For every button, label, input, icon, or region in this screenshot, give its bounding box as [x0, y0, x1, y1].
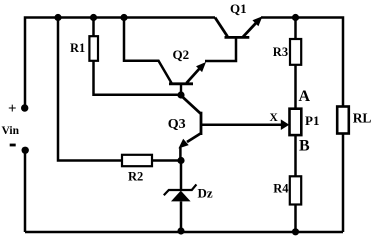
svg-text:Vin: Vin — [2, 125, 20, 137]
svg-text:Q1: Q1 — [230, 1, 247, 16]
wire right rail lower (RL to bottom) — [342, 134, 345, 233]
wire R2 to node E — [152, 159, 181, 162]
wire R1 top drop — [92, 18, 95, 37]
junction dot top rail at Q2 feed — [120, 14, 127, 21]
wire Dz bottom lead — [180, 202, 183, 233]
wire R3 top lead — [294, 18, 297, 40]
wire R1 bottom to Q2 base node — [94, 61, 182, 95]
wiper arrowhead into P1 — [281, 119, 290, 130]
svg-text:R1: R1 — [70, 41, 85, 55]
svg-text:+: + — [8, 101, 17, 117]
label minus sign — [10, 144, 16, 147]
junction dot top rail at R1 — [90, 14, 97, 21]
resistor RL — [337, 107, 349, 134]
svg-text:B: B — [299, 137, 310, 154]
potentiometer P1 — [290, 109, 302, 135]
wire R2 feed from top rail — [58, 18, 122, 161]
zener diode Dz — [164, 184, 197, 201]
wire Q2 collector feed — [124, 18, 172, 84]
resistor R3 — [290, 39, 301, 65]
wire left negative lead — [24, 150, 27, 232]
transistor Q1 — [215, 13, 265, 37]
wire P1 terminal B to R4 — [294, 135, 297, 177]
wire R3 to P1 terminal A — [294, 65, 297, 109]
svg-text:P1: P1 — [305, 113, 319, 128]
resistor R4 — [290, 176, 301, 204]
svg-text:R4: R4 — [273, 181, 289, 195]
transistor Q2 — [169, 59, 209, 95]
wire Q3 base to P1 wiper — [202, 123, 284, 126]
wire bottom rail — [25, 231, 343, 234]
wire Q3 emitter to node E — [179, 148, 182, 161]
svg-text:R2: R2 — [128, 169, 143, 183]
junction dot bottom rail at R4 — [292, 228, 299, 235]
junction dot bottom rail at Dz — [177, 227, 184, 234]
junction dot node E — [177, 157, 184, 164]
svg-text:Q2: Q2 — [173, 47, 190, 62]
svg-text:Dz: Dz — [198, 185, 213, 200]
junction dot top rail at R3 — [292, 14, 299, 21]
wire R4 bottom lead — [294, 205, 297, 233]
transistor Q3 — [176, 96, 201, 152]
svg-text:X: X — [270, 112, 279, 124]
junction dot top rail at R2 feed — [54, 14, 61, 21]
junction dot Q2 base node — [177, 91, 184, 98]
terminal dot minus — [22, 147, 29, 154]
svg-text:R3: R3 — [273, 45, 288, 59]
svg-text:Q3: Q3 — [168, 117, 186, 132]
svg-text:RL: RL — [353, 111, 371, 126]
resistor R2 — [122, 155, 152, 166]
wire Q1 base to Q2 emitter — [205, 39, 236, 62]
terminal dot plus — [21, 104, 28, 111]
resistor R1 — [89, 36, 98, 61]
wire top rail right — [261, 18, 343, 108]
wire Dz top lead — [180, 161, 183, 190]
svg-text:A: A — [299, 88, 311, 105]
wire top rail left — [25, 18, 215, 109]
